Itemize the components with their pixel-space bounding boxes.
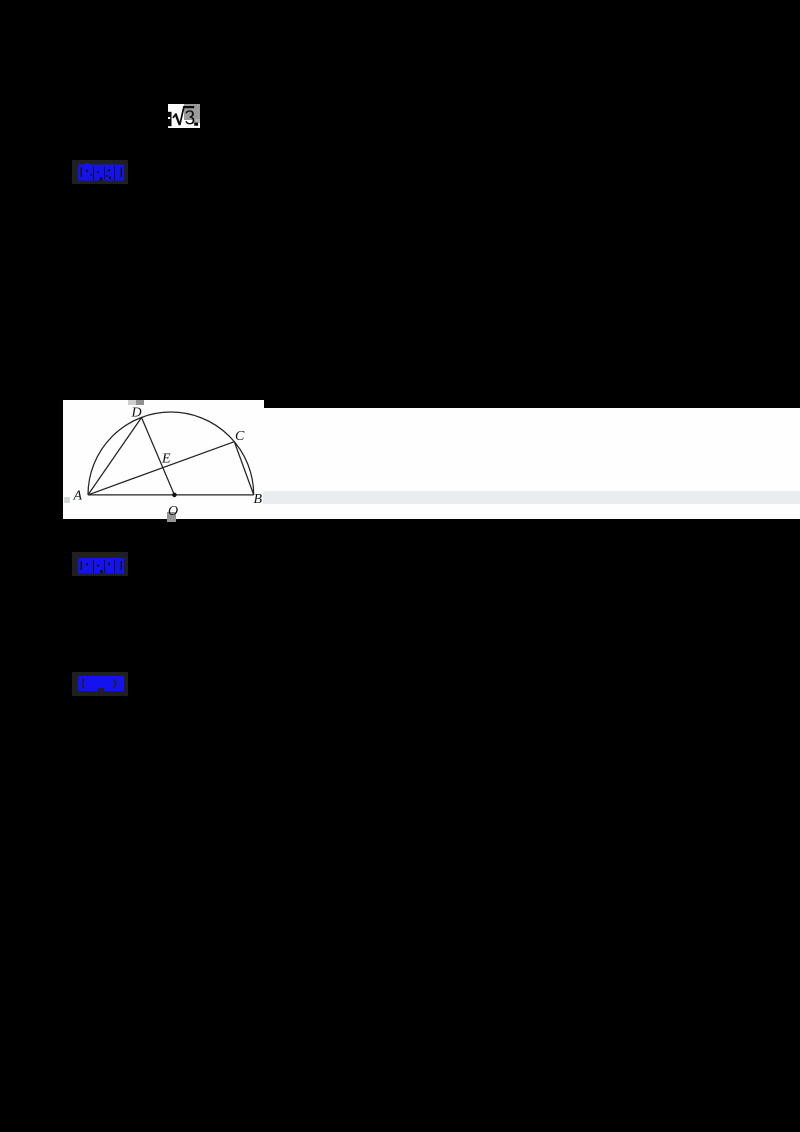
formula patch gray overlay lower right	[194, 119, 200, 123]
selection handle bottom-center of diagram	[167, 512, 176, 522]
formula patch sqrt(3) white background	[168, 104, 200, 128]
selection handle left-middle of diagram	[64, 497, 70, 503]
formula sqrt(3) glyphs	[164, 100, 206, 132]
digit 3	[185, 110, 194, 124]
chord A-D	[88, 418, 142, 495]
center dot O	[172, 493, 177, 498]
selection handle top-center of diagram (dark right part)	[136, 400, 144, 405]
answer label 3 blue condensed text	[78, 676, 124, 691]
diagram white box	[63, 400, 264, 519]
period after formula	[194, 123, 198, 126]
semicircle arc A to B	[88, 412, 254, 495]
radical bar	[183, 106, 194, 108]
svg-text:O: O	[168, 504, 178, 519]
light gray strip right of diagram	[263, 491, 800, 504]
geometry diagram	[63, 399, 263, 519]
svg-text:C: C	[235, 429, 245, 444]
white paragraph band behind diagram row	[63, 408, 800, 519]
formula patch gray overlay right	[184, 104, 200, 120]
answer label 3 highlighted box	[72, 672, 128, 696]
answer label 1 blue condensed text	[78, 163, 124, 181]
svg-text:D: D	[131, 406, 142, 421]
line A-C through E	[88, 442, 234, 495]
line D-O	[142, 418, 175, 495]
radical check	[172, 106, 185, 125]
svg-text:E: E	[161, 452, 171, 467]
selection handle top-center of diagram (light left part)	[128, 400, 136, 405]
answer label 2 blue condensed text	[78, 557, 124, 574]
svg-text:B: B	[254, 492, 263, 507]
chord C-B	[234, 442, 253, 495]
answer label 1 highlighted box	[72, 160, 128, 184]
svg-text:A: A	[73, 489, 83, 504]
answer label 2 highlighted box	[72, 552, 128, 576]
clipped glyph at left edge	[168, 112, 172, 126]
diameter A-B	[88, 494, 254, 496]
